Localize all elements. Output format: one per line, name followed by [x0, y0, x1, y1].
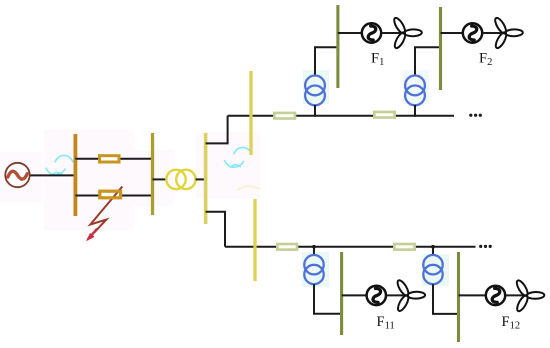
- wire: E to generator F1: [338, 32, 361, 34]
- transformer T2: [305, 76, 325, 106]
- junction T4: [312, 245, 316, 249]
- wire: T4 to busbar H: [314, 284, 340, 314]
- wire: F to generator F2: [441, 32, 463, 34]
- wire: T3 to feeder 1: [414, 105, 416, 117]
- wire: source to busbar A: [30, 174, 74, 176]
- AC source G: [5, 163, 29, 187]
- wire: T2 tap riser: [315, 47, 336, 76]
- cyan patch behind transformer T2: [303, 70, 329, 104]
- cyan patch behind transformer T4: [302, 252, 329, 287]
- busbar D: [249, 71, 252, 155]
- wire: T3 tap riser: [415, 47, 439, 76]
- rotor blades F2: [493, 16, 523, 49]
- wire: C to feeder 1 riser: [206, 116, 228, 144]
- junction T5: [431, 245, 435, 249]
- generator circle F11: [367, 286, 386, 305]
- busbar B: [151, 133, 154, 215]
- transformer T1: [166, 170, 195, 189]
- watermark arcs 1: [46, 156, 73, 175]
- breaker box R2 border over fault: [100, 191, 121, 198]
- busbar G: [253, 199, 256, 281]
- wire: F2 circle to rotor hub: [483, 32, 505, 34]
- generator circle F12: [486, 286, 505, 305]
- wire: feeder 1: [228, 115, 454, 117]
- cable box GR-A: [274, 113, 295, 119]
- busbar A: [74, 134, 78, 216]
- busbar F: [439, 7, 442, 90]
- busbar E: [336, 5, 339, 88]
- cable box GR-C: [277, 244, 297, 250]
- wire: F11 circle to rotor hub: [387, 294, 408, 296]
- transformer T3: [405, 76, 425, 106]
- cyan patch behind transformer T3: [403, 70, 429, 104]
- wire: line A-B upper: [75, 158, 152, 160]
- cyan patch behind transformer T5: [422, 254, 449, 286]
- busbar H: [340, 252, 343, 335]
- wire: feeder 2 to T5: [432, 247, 434, 256]
- feeder 1 continuation dots: [469, 114, 482, 117]
- generator circle F2: [463, 23, 482, 42]
- rotor blades F12: [515, 279, 545, 313]
- rotor blades F11: [396, 279, 426, 313]
- wire: T5 to busbar I: [433, 284, 457, 314]
- breaker box R2: [100, 191, 121, 198]
- wire: feeder 2 to T4: [313, 247, 315, 256]
- busbar C: [204, 133, 208, 224]
- watermark faint yellow: [237, 186, 260, 190]
- breaker box R1: [100, 156, 120, 162]
- wire: T2 to feeder 1: [314, 105, 316, 117]
- wire: B to transformer T1: [153, 178, 168, 180]
- wire: H to generator F11: [342, 294, 366, 296]
- watermark arcs 2: [224, 148, 252, 168]
- transformer T5: [423, 255, 442, 284]
- fault lightning arrow: [86, 187, 122, 242]
- rotor blades F1: [392, 16, 422, 49]
- wire: T1 to busbar C: [196, 178, 206, 180]
- wire: I to generator F12: [459, 294, 487, 296]
- generator circle F1: [362, 23, 381, 42]
- busbar I: [457, 252, 460, 342]
- wire: feeder 2: [225, 246, 476, 248]
- wire: line A-B lower: [75, 195, 152, 197]
- pink artifact tint left area: [0, 130, 260, 230]
- wire: F12 circle to rotor hub: [506, 294, 527, 296]
- cable box GR-D: [394, 244, 414, 250]
- wire: F1 circle to rotor hub: [382, 32, 404, 34]
- transformer T4: [304, 255, 323, 284]
- wire: C to feeder 2 riser: [206, 212, 225, 247]
- cable box GR-B: [374, 112, 394, 118]
- feeder 2 continuation dots: [479, 245, 492, 248]
